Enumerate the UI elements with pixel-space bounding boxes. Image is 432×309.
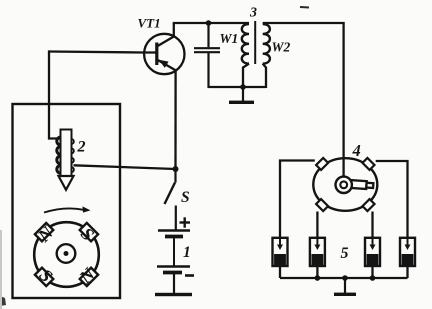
svg-text:4: 4 [352,141,361,160]
junction: plug 2 on return rail [315,275,321,281]
svg-text:VT1: VT1 [138,16,161,31]
svg-text:3: 3 [249,6,257,21]
svg-text:2: 2 [77,139,86,156]
svg-text:W2: W2 [272,40,291,55]
wire: sensor output to switch node [74,165,176,169]
wire: distributor bottom-left output [316,212,318,239]
svg-text:S: S [181,189,190,206]
svg-text:5: 5 [341,245,349,262]
switch S [165,169,176,231]
magneto unit box (sensor+rotor enclosure) [13,104,121,298]
wire: W2 top rail to distributor drop [263,23,344,178]
spark plug (cyl 1) [273,238,288,266]
battery 1 [157,231,190,294]
junction: capacitor tap on top rail [206,20,212,26]
capacitor (across primary) [194,23,220,88]
svg-text:1: 1 [183,244,191,261]
wire: common plug return rail [280,277,408,279]
label + (battery positive) [180,217,191,227]
rotation direction arrow [44,206,91,212]
ground (battery negative) [155,293,192,296]
spark plug (cyl 2) [310,238,325,266]
wire: emitter down to switch node [174,70,176,169]
wire: collector up to top rail [173,23,175,37]
ground (plug return) [334,278,356,296]
wire: distributor left output [280,161,315,239]
svg-text:W1: W1 [220,31,239,46]
wire: distributor right output [376,161,408,238]
wire: vertical drop into box to sensor top [49,50,61,138]
stray print dash artifact [300,6,309,9]
label - (battery negative) [185,274,194,277]
wire: base lead from sensor to VT1 base [49,52,144,53]
spark plug (cyl 3) [365,238,380,266]
wire: plug 4 bottom to common rail [406,266,408,278]
wire: plug 2 bottom to common rail [316,266,318,278]
ground (coil common) [229,87,254,104]
wire: plug 3 bottom to common rail [371,266,373,278]
ignition coil 3 : primary winding W1 [242,24,249,88]
wire: plug 1 bottom to common rail [279,266,281,278]
coil core [254,21,256,64]
sensor 2 (induction pickup, screw-like core with winding) [57,130,74,190]
wire: distributor bottom-right output [371,212,373,239]
spark plug (cyl 4) [400,238,415,266]
bottom-left corner smudge [0,296,6,306]
wire: bottom rail (capacitor to W2 bottom lead) [209,86,267,88]
secondary winding W2 [263,24,270,88]
magnet rotor (4-pole magnet) [34,222,99,287]
wire: top rail (collector to W1 top) [173,22,249,24]
junction: ground tap on bottom rail [240,84,246,90]
distributor 4 [313,158,377,211]
junction: sensor/emitter/switch node [173,166,179,172]
junction: plug 3 on return rail [370,275,376,281]
transistor VT1 [144,34,185,74]
junction: ground tap on return rail [342,275,348,281]
